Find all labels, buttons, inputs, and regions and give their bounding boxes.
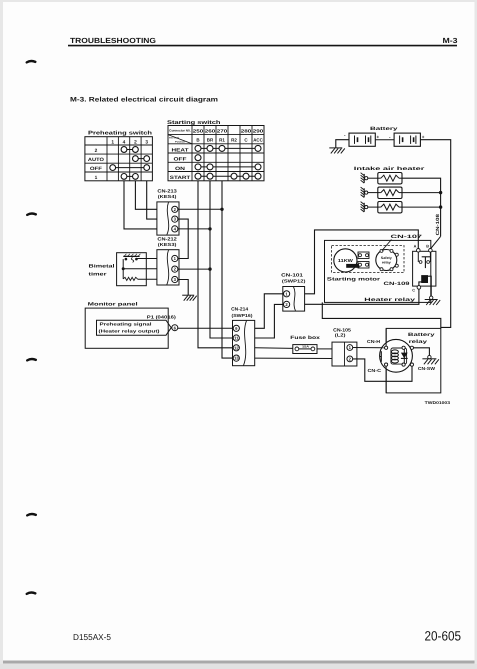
starting motor assembly box <box>325 240 431 302</box>
svg-text:3: 3 <box>145 139 148 145</box>
starting switch table <box>168 126 264 181</box>
wire CN-105 pin 2 to CN-C <box>353 359 412 381</box>
svg-text:relay: relay <box>382 260 391 264</box>
svg-text:Battery: Battery <box>370 126 398 132</box>
svg-text:CN-C: CN-C <box>368 368 383 373</box>
svg-text:Monitor panel: Monitor panel <box>88 302 138 308</box>
wire B 250 to CN-214 pin 12 <box>198 181 233 348</box>
svg-text:timer: timer <box>89 271 107 277</box>
bimetal timer label <box>89 264 115 278</box>
starting switch terminal letters <box>196 138 263 143</box>
starting motor 11KW <box>334 249 357 272</box>
connector CN-101 <box>283 287 305 312</box>
CN-214 pin 9 <box>233 325 239 331</box>
wire preheat 3-column to CN-213 pin 3 <box>147 181 157 219</box>
heater relay box <box>413 251 436 286</box>
svg-text:M-3: M-3 <box>443 36 458 45</box>
bimetal timer heater resistor <box>123 277 137 280</box>
svg-text:ACC: ACC <box>253 138 263 143</box>
CN-213 pin 2 <box>172 206 178 212</box>
CN-214 pin 13 <box>233 355 239 361</box>
svg-text:OFF: OFF <box>174 157 187 163</box>
svg-text:CN-213: CN-213 <box>157 189 177 194</box>
wire CN-212 pin 2 to BR <box>178 267 212 270</box>
heater element 2 supply prong <box>361 187 378 197</box>
preheating switch contacts OFF <box>110 165 150 171</box>
wire terminal A to CN-101 pin 1 <box>305 230 419 294</box>
svg-text:CN-212: CN-212 <box>157 236 177 241</box>
connector CN-212 <box>157 250 179 285</box>
heater element 2 <box>378 187 402 198</box>
CN-105 pin 1 <box>347 345 353 351</box>
svg-text:2: 2 <box>134 139 137 145</box>
preheating switch contacts row 2 <box>121 147 138 153</box>
wire CN-212 pin 3 to ground <box>178 280 188 296</box>
svg-text:BR: BR <box>207 138 214 143</box>
monitor panel pin 6 <box>172 325 178 331</box>
svg-text:HEAT: HEAT <box>172 147 189 153</box>
preheating switch table <box>85 137 152 181</box>
wire CN-213 pin 3 to CN-212 pin 1 <box>178 219 188 258</box>
svg-text:12: 12 <box>234 345 239 350</box>
wire CN-214 pin 12 to fuse box <box>255 347 293 350</box>
starting switch connector numbers <box>193 128 264 133</box>
svg-text:M-3. Related electrical circui: M-3. Related electrical circuit diagram <box>70 97 218 104</box>
svg-text:P1 (04016): P1 (04016) <box>147 314 177 319</box>
svg-text:280: 280 <box>241 128 252 133</box>
svg-text:CN-109: CN-109 <box>384 281 411 287</box>
svg-text:C: C <box>412 288 415 292</box>
svg-text:CN-214: CN-214 <box>231 307 248 312</box>
wire between batteries <box>375 139 394 141</box>
svg-text:20-605: 20-605 <box>425 629 462 644</box>
CN-105 pin 2 <box>347 356 353 362</box>
safety relay terminals <box>380 249 398 270</box>
svg-text:1: 1 <box>95 175 98 181</box>
battery ground <box>329 148 345 154</box>
wire battery negative to ground <box>336 140 349 148</box>
wire battery relay to CN-SW ground <box>414 348 430 356</box>
fuse box <box>293 345 317 354</box>
svg-text:START: START <box>170 175 191 181</box>
connector CN-213 label <box>157 189 177 200</box>
svg-text:260: 260 <box>205 128 216 133</box>
wire preheat 4-column to CN-213 pin 4 <box>124 181 157 229</box>
heater element 1 supply prong <box>361 173 378 183</box>
svg-text:(SWP12): (SWP12) <box>282 279 306 284</box>
starting motor terminal blocks <box>358 252 369 268</box>
wire battery positive to right rail <box>420 140 450 328</box>
wire CN-214 pin 11 to CN-101 pin 2 <box>255 304 284 338</box>
wire CN-213 pin 2 to R1 <box>178 208 224 211</box>
svg-text:CN-SW: CN-SW <box>418 366 436 371</box>
svg-text:CN-108: CN-108 <box>435 213 440 235</box>
svg-text:2: 2 <box>95 148 98 154</box>
starting motor dashed enclosure <box>332 246 405 273</box>
svg-text:Fuse box: Fuse box <box>290 335 320 341</box>
wire fuse box to CN-105 <box>317 348 332 350</box>
svg-text:D155AX-5: D155AX-5 <box>73 632 111 642</box>
CN-213 pin 3 <box>172 216 178 222</box>
svg-text:AUTO: AUTO <box>88 157 104 163</box>
wire battery relay lower-left terminal down to bottom <box>385 366 387 393</box>
svg-text:Connector N0.: Connector N0. <box>169 129 191 133</box>
svg-text:Heater relay: Heater relay <box>364 297 415 303</box>
battery 1 <box>349 133 375 146</box>
svg-text:290: 290 <box>253 128 264 133</box>
svg-text:TROUBLESHOOTING: TROUBLESHOOTING <box>70 36 156 45</box>
CN-214 pin 11 <box>233 335 239 341</box>
svg-text:Bimetal: Bimetal <box>89 264 115 270</box>
svg-text:(SWP16): (SWP16) <box>232 313 254 318</box>
svg-text:+: + <box>377 134 380 139</box>
preheating switch contacts AUTO <box>133 156 150 162</box>
svg-text:(L2): (L2) <box>335 333 346 338</box>
wire monitor pin 6 to CN-214 pin 9 <box>178 327 233 329</box>
battery relay label <box>408 332 435 345</box>
CN-214 pin 12 <box>233 345 239 351</box>
battery 2 <box>394 133 420 146</box>
starting switch contacts OFF row <box>195 155 201 161</box>
heater relay terminal B <box>426 245 432 253</box>
preheating switch column headers <box>111 139 148 145</box>
svg-text:Starting motor: Starting motor <box>327 276 380 282</box>
svg-text:Intake air heater: Intake air heater <box>354 166 425 172</box>
wire CN-214 pin 13 to CN-105 <box>255 357 332 359</box>
CN-107 pointer line <box>382 240 392 251</box>
battery relay inner frame <box>391 348 407 364</box>
bimetal strip element <box>123 254 140 262</box>
svg-text:Ter-inal: Ter-inal <box>169 136 179 139</box>
svg-text:A: A <box>414 245 417 249</box>
battery relay contact bar <box>380 351 382 362</box>
CN-101 pin 1 <box>284 291 290 297</box>
connector CN-214 <box>233 320 255 365</box>
CN-212 pin 2 <box>172 266 178 272</box>
heater relay contact <box>418 252 430 268</box>
connector CN-212 label <box>157 236 177 247</box>
monitor panel box <box>85 308 168 348</box>
wire BR 260 to CN-214 pin 11 <box>210 181 233 338</box>
ground below CN-212 <box>182 295 197 301</box>
starting switch contacts ON row <box>195 164 261 170</box>
bimetal timer box <box>117 253 147 286</box>
connector CN-213 <box>157 202 179 235</box>
battery relay diode <box>401 348 408 364</box>
svg-text:B: B <box>426 245 429 249</box>
starting switch contacts START row <box>195 173 261 179</box>
left margin binder marks <box>27 61 36 594</box>
wire CN-214 pin 9 to CN-101 pin 1 <box>255 294 284 329</box>
svg-text:Position: Position <box>175 141 186 144</box>
bimetal timer internal wires <box>122 259 157 280</box>
heater relay coil ground <box>425 296 441 305</box>
svg-text:11: 11 <box>234 336 239 341</box>
svg-text:CN-H: CN-H <box>367 339 380 344</box>
safety relay <box>376 250 397 271</box>
wire battery relay upper-left terminal up <box>385 328 387 346</box>
svg-text:+: + <box>422 134 425 139</box>
wire R1 270 to CN-214 pin 13 <box>222 181 233 358</box>
svg-text:1: 1 <box>111 139 114 145</box>
svg-text:TWD01003: TWD01003 <box>425 400 451 405</box>
svg-text:Battery: Battery <box>408 332 435 338</box>
svg-text:270: 270 <box>217 128 228 133</box>
svg-text:(KES3): (KES3) <box>158 242 177 247</box>
wire preheat 2-column to CN-213 pin 2 <box>135 181 157 210</box>
battery 2 polarity marks <box>389 134 425 139</box>
starting motor terminal bar <box>347 264 359 267</box>
svg-text:relay: relay <box>409 339 428 345</box>
svg-text:(Heater relay output): (Heater relay output) <box>99 329 161 334</box>
starting switch contacts HEAT row <box>195 145 261 151</box>
svg-text:4: 4 <box>123 139 126 145</box>
preheating switch contacts row 1 <box>121 174 138 180</box>
CN-101 pin 2 <box>284 301 290 307</box>
heater relay terminal A <box>414 245 421 253</box>
svg-text:CN-101: CN-101 <box>281 272 303 277</box>
svg-text:250: 250 <box>193 128 204 133</box>
battery 1 polarity marks <box>344 132 380 139</box>
svg-text:ON: ON <box>175 166 186 172</box>
svg-text:Preheating switch: Preheating switch <box>88 131 152 137</box>
svg-text:Preheating signal: Preheating signal <box>100 322 152 327</box>
wire terminal C to CN-101 pin 2 <box>305 289 419 304</box>
CN-213 pin 4 <box>172 226 178 232</box>
connector CN-214 label <box>231 307 253 319</box>
svg-text:(KES4): (KES4) <box>158 194 177 199</box>
preheating switch row labels <box>88 148 104 181</box>
battery relay box <box>386 328 441 393</box>
battery relay terminals <box>385 346 414 366</box>
CN-212 pin 1 <box>172 255 178 261</box>
heater relay coil CN-109 <box>419 276 431 297</box>
starting switch row labels <box>170 147 191 181</box>
CN-SW ground <box>422 355 439 364</box>
heater element 3 supply prong <box>361 202 378 212</box>
svg-text:R2: R2 <box>231 138 237 143</box>
starting switch header diagonal cell <box>168 135 192 144</box>
svg-text:11KW: 11KW <box>338 258 354 263</box>
battery relay coil <box>391 350 398 363</box>
battery relay body <box>380 339 413 372</box>
preheating signal box <box>97 320 172 335</box>
heater element 3 <box>378 202 402 213</box>
wire CN-105 pin 1 to CN-H <box>353 347 385 349</box>
svg-text:R1: R1 <box>219 138 225 143</box>
heater relay terminal C <box>412 286 421 293</box>
battery relay feed wire from starting motor box <box>322 302 441 328</box>
connector CN-105 label <box>333 328 351 338</box>
wire CN-108 rail to terminal B <box>430 236 440 249</box>
svg-text:15A: 15A <box>302 345 309 349</box>
header rule <box>68 45 457 47</box>
connector CN-101 label <box>281 272 306 283</box>
heater element 1 <box>378 173 402 184</box>
wire CN-213 pin 4 to BR <box>178 227 212 230</box>
CN-212 pin 3 <box>172 276 178 282</box>
connector CN-105 <box>332 342 357 366</box>
wire heater elements to CN-108 rail <box>402 178 442 236</box>
svg-text:OFF: OFF <box>90 166 102 172</box>
svg-text:13: 13 <box>234 356 239 361</box>
